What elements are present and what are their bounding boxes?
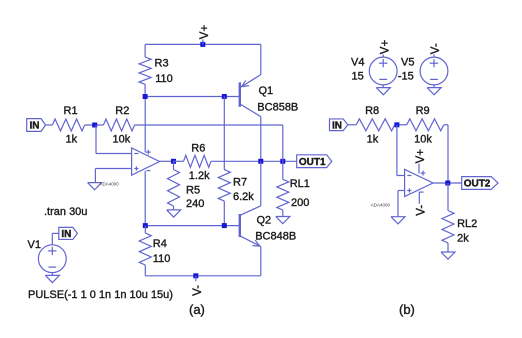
svg-text:R8: R8 bbox=[365, 105, 379, 117]
svg-text:(a): (a) bbox=[189, 302, 205, 317]
svg-text:-15: -15 bbox=[398, 71, 414, 83]
svg-text:ADA4000: ADA4000 bbox=[100, 182, 120, 187]
svg-text:(b): (b) bbox=[399, 302, 415, 317]
svg-text:15: 15 bbox=[352, 71, 364, 83]
svg-text:R4: R4 bbox=[153, 238, 167, 250]
svg-text:V-: V- bbox=[192, 285, 204, 296]
svg-text:ADA4000: ADA4000 bbox=[371, 203, 391, 208]
svg-text:OUT2: OUT2 bbox=[464, 179, 491, 190]
svg-text:RL2: RL2 bbox=[457, 218, 477, 230]
svg-text:110: 110 bbox=[155, 73, 173, 85]
svg-text:240: 240 bbox=[186, 198, 204, 210]
svg-text:10k: 10k bbox=[113, 134, 131, 146]
svg-text:IN: IN bbox=[61, 229, 71, 240]
svg-text:RL1: RL1 bbox=[290, 178, 310, 190]
svg-text:PULSE(-1 1 0 1n 1n 10u 15u): PULSE(-1 1 0 1n 1n 10u 15u) bbox=[28, 289, 173, 301]
svg-text:Q1: Q1 bbox=[259, 85, 274, 97]
svg-text:R7: R7 bbox=[233, 176, 247, 188]
svg-text:IN: IN bbox=[29, 121, 39, 132]
svg-text:BC848B: BC848B bbox=[255, 230, 296, 242]
svg-text:OUT1: OUT1 bbox=[299, 157, 326, 168]
svg-text:6.2k: 6.2k bbox=[233, 191, 254, 203]
svg-text:V-: V- bbox=[415, 205, 427, 216]
svg-text:V+: V+ bbox=[199, 25, 211, 40]
svg-text:V-: V- bbox=[430, 43, 442, 54]
svg-text:R1: R1 bbox=[64, 105, 78, 117]
svg-text:R5: R5 bbox=[186, 185, 200, 197]
svg-text:R6: R6 bbox=[191, 142, 205, 154]
svg-text:1k: 1k bbox=[367, 134, 379, 146]
svg-text:1.2k: 1.2k bbox=[189, 170, 210, 182]
svg-text:2k: 2k bbox=[457, 232, 469, 244]
svg-text:V1: V1 bbox=[28, 239, 41, 251]
svg-text:.tran 30u: .tran 30u bbox=[44, 206, 87, 218]
svg-text:BC858B: BC858B bbox=[257, 102, 298, 114]
svg-text:V+: V+ bbox=[380, 40, 392, 55]
svg-text:R2: R2 bbox=[115, 105, 129, 117]
svg-text:R9: R9 bbox=[416, 105, 430, 117]
svg-text:Q2: Q2 bbox=[257, 214, 272, 226]
svg-text:10k: 10k bbox=[414, 134, 432, 146]
svg-text:IN: IN bbox=[332, 120, 342, 131]
svg-text:V5: V5 bbox=[401, 57, 414, 69]
svg-text:200: 200 bbox=[291, 197, 309, 209]
svg-text:V4: V4 bbox=[351, 57, 364, 69]
svg-text:1k: 1k bbox=[66, 134, 78, 146]
svg-text:V+: V+ bbox=[415, 149, 427, 164]
svg-text:R3: R3 bbox=[155, 58, 169, 70]
svg-text:110: 110 bbox=[153, 253, 171, 265]
